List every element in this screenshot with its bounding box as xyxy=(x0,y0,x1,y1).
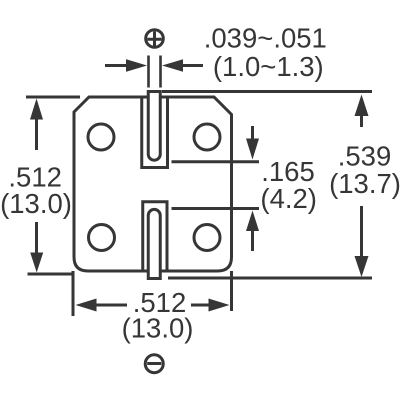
body width dimension arrow left xyxy=(96,304,127,307)
polarity symbol minus (bar) xyxy=(147,362,161,365)
capacitor body outline xyxy=(74,97,232,271)
body height extension line bottom-left xyxy=(28,271,74,316)
standoff circle top-left xyxy=(88,124,114,150)
svg-text:(1.0~1.3): (1.0~1.3) xyxy=(213,51,324,82)
standoff circle bottom-right xyxy=(194,225,220,251)
bottom terminal recess xyxy=(143,202,167,272)
overall height dimension arrow down xyxy=(360,206,363,258)
overall height dimension arrow up xyxy=(360,115,363,127)
svg-text:(13.0): (13.0) xyxy=(122,313,194,344)
standoff circle top-right xyxy=(194,124,220,150)
polarity symbol plus (circle) xyxy=(146,30,164,48)
standoff circle bottom-left xyxy=(89,225,115,251)
lead width dimension arrow left xyxy=(105,64,129,67)
body height dimension arrow down xyxy=(35,222,38,254)
top terminal lead (positive) xyxy=(148,92,160,161)
polarity symbol plus (cross bars) xyxy=(147,31,161,47)
svg-text:.539: .539 xyxy=(338,141,392,172)
body height extension line top-left xyxy=(26,96,80,99)
body width extension line right xyxy=(230,271,233,311)
lead width extension line left xyxy=(147,56,150,88)
slot gap dimension arrow down xyxy=(251,126,254,139)
body width dimension arrow right xyxy=(191,304,209,307)
body height dimension arrow up xyxy=(35,119,38,150)
lead width dimension arrow right xyxy=(182,64,203,67)
bottom terminal lead (negative) xyxy=(148,209,160,278)
slot gap extension line lower xyxy=(172,207,260,210)
svg-text:(13.0): (13.0) xyxy=(0,188,72,219)
svg-text:.039~.051: .039~.051 xyxy=(204,23,327,54)
top terminal recess xyxy=(142,96,168,168)
slot gap extension line upper xyxy=(172,160,260,163)
slot gap dimension arrow up xyxy=(251,231,254,251)
svg-text:(4.2): (4.2) xyxy=(260,183,317,214)
svg-text:(13.7): (13.7) xyxy=(329,168,400,199)
overall height extension line top xyxy=(162,90,372,93)
polarity symbol minus (circle) xyxy=(145,355,163,373)
overall height extension line bottom xyxy=(168,277,372,280)
lead width extension line right xyxy=(159,56,162,88)
